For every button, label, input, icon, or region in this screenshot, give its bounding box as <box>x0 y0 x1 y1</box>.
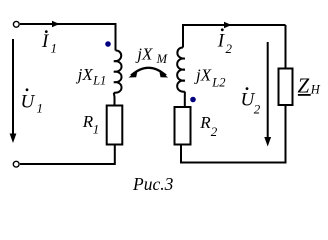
svg-text:1: 1 <box>51 41 58 56</box>
svg-text:2: 2 <box>254 102 261 117</box>
svg-text:jX: jX <box>135 45 153 64</box>
svg-text:1: 1 <box>37 101 44 116</box>
svg-text:jX: jX <box>194 65 212 84</box>
svg-text:Рис.3: Рис.3 <box>132 174 174 194</box>
svg-text:jX: jX <box>76 65 94 84</box>
svg-text:L1: L1 <box>92 74 106 88</box>
svg-text:2: 2 <box>226 41 233 56</box>
svg-text:2: 2 <box>211 124 218 139</box>
svg-text:1: 1 <box>93 121 100 136</box>
svg-text:R: R <box>199 113 211 132</box>
svg-text:U: U <box>21 92 36 113</box>
svg-text:H: H <box>310 82 321 96</box>
svg-text:L2: L2 <box>211 76 225 90</box>
svg-text:M: M <box>156 52 168 66</box>
